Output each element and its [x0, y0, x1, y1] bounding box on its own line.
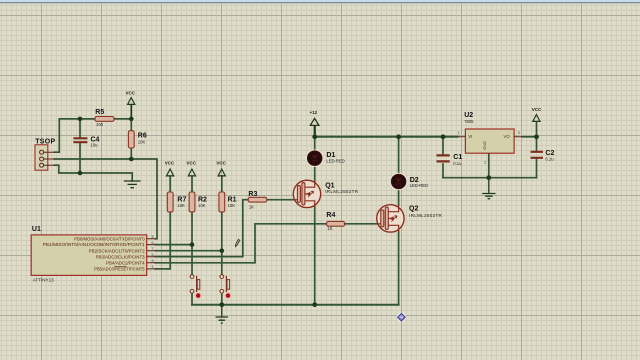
wire button1 bottom to rail: [191, 293, 193, 305]
wire U1 PB1 to R2/button1 net: [155, 244, 192, 246]
wire TSOP pin1 to R5 left: [55, 119, 96, 152]
wire VCC stem R2: [191, 176, 193, 192]
regulator U2 7805: [457, 112, 522, 164]
svg-text:10K: 10K: [198, 203, 206, 208]
wire VCC stem right: [536, 122, 538, 137]
transistor Q1 IRLML2502TR: [293, 180, 358, 207]
power terminal +12: [309, 110, 318, 137]
wire R7 bottom to U1 PB5/RESET: [155, 212, 170, 269]
wire R3 right to Q1 gate: [267, 199, 294, 201]
svg-text:2: 2: [152, 253, 154, 257]
node C4 top / R5 left: [78, 117, 83, 122]
transistor Q2 IRLML2502TR: [377, 205, 443, 232]
IC U1 ATTINY13: [31, 226, 155, 283]
wire D1 cathode to Q1 drain: [314, 165, 316, 181]
svg-text:VCC: VCC: [216, 160, 226, 165]
svg-text:R6: R6: [138, 132, 147, 139]
resistor R1: [219, 192, 237, 212]
wire C1 bottom stem: [442, 164, 444, 178]
svg-text:10K: 10K: [138, 140, 146, 145]
wire TSOP pin3 to ground: [55, 165, 133, 181]
power terminal VCC (above R2): [187, 160, 197, 176]
power terminal VCC (above R7): [165, 160, 175, 176]
wire R5 right to VCC/R6 node: [114, 118, 131, 120]
wire C4 top stem: [79, 119, 81, 137]
capacitor C1 0.1u: [437, 154, 463, 166]
svg-text:5: 5: [152, 235, 154, 239]
wire C4 bottom stem: [79, 143, 81, 173]
node C4 bottom on ground wire: [78, 171, 83, 176]
svg-text:10K: 10K: [228, 203, 236, 208]
wire R4 right to Q2 gate: [345, 223, 378, 225]
connector TSOP: [35, 138, 55, 170]
pin stubs: [147, 239, 156, 269]
LED D2 LED-RED: [390, 173, 428, 190]
wire R6 bottom to TSOP output net: [130, 148, 132, 159]
pin names: [43, 236, 146, 271]
origin marker (blue): [397, 313, 406, 322]
wire Q2 source to ground rail: [398, 232, 400, 305]
svg-text:U1: U1: [32, 226, 41, 233]
svg-text:R3: R3: [248, 191, 257, 198]
svg-text:10u: 10u: [91, 142, 99, 147]
node ground rail / button2: [219, 302, 224, 307]
wire C2 top stem: [536, 137, 538, 151]
wire TSOP pin2 output to U1 PB0: [55, 159, 158, 239]
pushbutton SW2: [220, 275, 232, 300]
svg-text:1: 1: [458, 131, 460, 135]
svg-text:2: 2: [484, 161, 486, 165]
svg-text:PB3/ADC3/CLKI/PCINT3: PB3/ADC3/CLKI/PCINT3: [96, 254, 146, 259]
svg-text:10K: 10K: [177, 203, 185, 208]
node R5 right / R6 top: [129, 117, 134, 122]
resistor R3: [248, 191, 267, 209]
wire U2 GND pin to rail: [488, 153, 490, 178]
node +12 / D1: [312, 134, 317, 139]
capacitor C2 0.1u: [531, 150, 555, 161]
wire R2 bottom to button1: [191, 212, 193, 275]
wire U1 PB3 to R3 left: [155, 200, 248, 257]
pushbutton SW1: [190, 275, 202, 300]
svg-text:PB1/MISO/INT0/AIN1/OC0B/INT0/R: PB1/MISO/INT0/AIN1/OC0B/INT0/RXD/PCINT1: [43, 242, 146, 247]
node PB1 / R2: [190, 242, 195, 247]
LED D1 LED-RED: [306, 150, 345, 167]
svg-text:0.1u: 0.1u: [453, 161, 462, 166]
ground (near R6/TSOP): [124, 181, 141, 188]
svg-text:TSOP: TSOP: [35, 138, 55, 145]
wire U1 PB2 to R1/button2 net: [155, 250, 222, 252]
top window bar: [0, 0, 640, 2]
svg-text:+12: +12: [309, 110, 317, 115]
svg-text:0.1u: 0.1u: [545, 157, 554, 162]
wire VCC stem R7: [169, 176, 171, 192]
svg-text:GND: GND: [482, 141, 487, 150]
wire Q1 source to ground rail: [314, 207, 316, 305]
svg-text:PB0/MOSI/AIN0/OC0A/TXD/PCINT0: PB0/MOSI/AIN0/OC0A/TXD/PCINT0: [74, 236, 145, 241]
ground (bottom rail): [216, 305, 228, 323]
node rail / D2: [396, 134, 401, 139]
svg-text:VCC: VCC: [126, 91, 136, 96]
node U2 GND / bottom rail: [486, 175, 491, 180]
wire U2 VO to VCC node: [523, 136, 537, 138]
svg-text:PB4/ADC2/PCINT4: PB4/ADC2/PCINT4: [106, 260, 145, 265]
capacitor C4 10u: [73, 137, 99, 148]
svg-text:PB5/ADC0/RESET/PCINT5: PB5/ADC0/RESET/PCINT5: [94, 267, 145, 272]
power terminal VCC (right, above C2): [532, 107, 542, 122]
wire U1 PB4 to R4 left: [155, 224, 326, 263]
svg-text:VCC: VCC: [532, 107, 542, 112]
svg-text:7805: 7805: [464, 119, 474, 124]
power terminal VCC (above R6): [126, 91, 136, 119]
svg-text:7: 7: [152, 247, 154, 251]
resistor R4: [326, 212, 344, 231]
svg-text:IRLML2502TR: IRLML2502TR: [325, 189, 359, 194]
svg-text:R4: R4: [326, 212, 335, 219]
svg-text:LED-RED: LED-RED: [326, 158, 344, 163]
wire C1 top stem: [442, 137, 444, 155]
wire VCC1 stem to R6 top: [130, 105, 132, 131]
svg-text:ATTINY13: ATTINY13: [33, 277, 55, 282]
wire R1 bottom to button2: [221, 212, 223, 275]
svg-text:6: 6: [152, 241, 154, 245]
wire D2 cathode to Q2 drain: [398, 188, 400, 205]
svg-text:R5: R5: [95, 109, 104, 116]
mouse cursor (wire pencil): [235, 239, 240, 247]
svg-text:IRLML2502TR: IRLML2502TR: [409, 213, 443, 218]
node rail / C1: [441, 134, 446, 139]
power terminal VCC (above R1): [216, 160, 226, 176]
resistor R5: [95, 109, 114, 127]
wire bottom ground rail: [192, 304, 399, 306]
svg-text:Q2: Q2: [409, 205, 418, 212]
svg-text:100: 100: [96, 122, 104, 127]
node ground rail / Q1 source: [312, 302, 317, 307]
wire U2 bottom rail: [443, 177, 537, 179]
svg-text:VI: VI: [468, 134, 472, 139]
node VO / VCC / C2: [534, 134, 539, 139]
svg-text:1K: 1K: [327, 226, 332, 231]
svg-text:VO: VO: [504, 134, 511, 139]
svg-text:1K: 1K: [249, 204, 254, 209]
svg-text:LED-RED: LED-RED: [410, 183, 428, 188]
resistor R7: [167, 192, 186, 212]
RESET overline: [114, 266, 126, 268]
svg-text:3: 3: [152, 259, 154, 263]
wire +12 rail: [315, 136, 458, 138]
wire VCC stem R1: [221, 176, 223, 192]
svg-text:VCC: VCC: [165, 160, 175, 165]
wire C2 bottom stem: [536, 159, 538, 178]
svg-text:PB2/SCK/ADC1/T0/PCINT2: PB2/SCK/ADC1/T0/PCINT2: [89, 248, 146, 253]
svg-text:VCC: VCC: [187, 160, 197, 165]
ground (below U2): [482, 178, 495, 199]
wire button2 bottom to rail: [221, 293, 223, 305]
resistor R6: [128, 131, 146, 148]
resistor R2: [189, 192, 207, 212]
node R6 bottom on TSOP output: [129, 157, 134, 162]
node PB2 / R1: [220, 248, 225, 253]
wire D2 anode stem: [398, 137, 400, 175]
svg-text:1: 1: [152, 265, 154, 269]
wire D1 anode stem: [314, 137, 316, 152]
svg-text:3: 3: [518, 131, 520, 135]
